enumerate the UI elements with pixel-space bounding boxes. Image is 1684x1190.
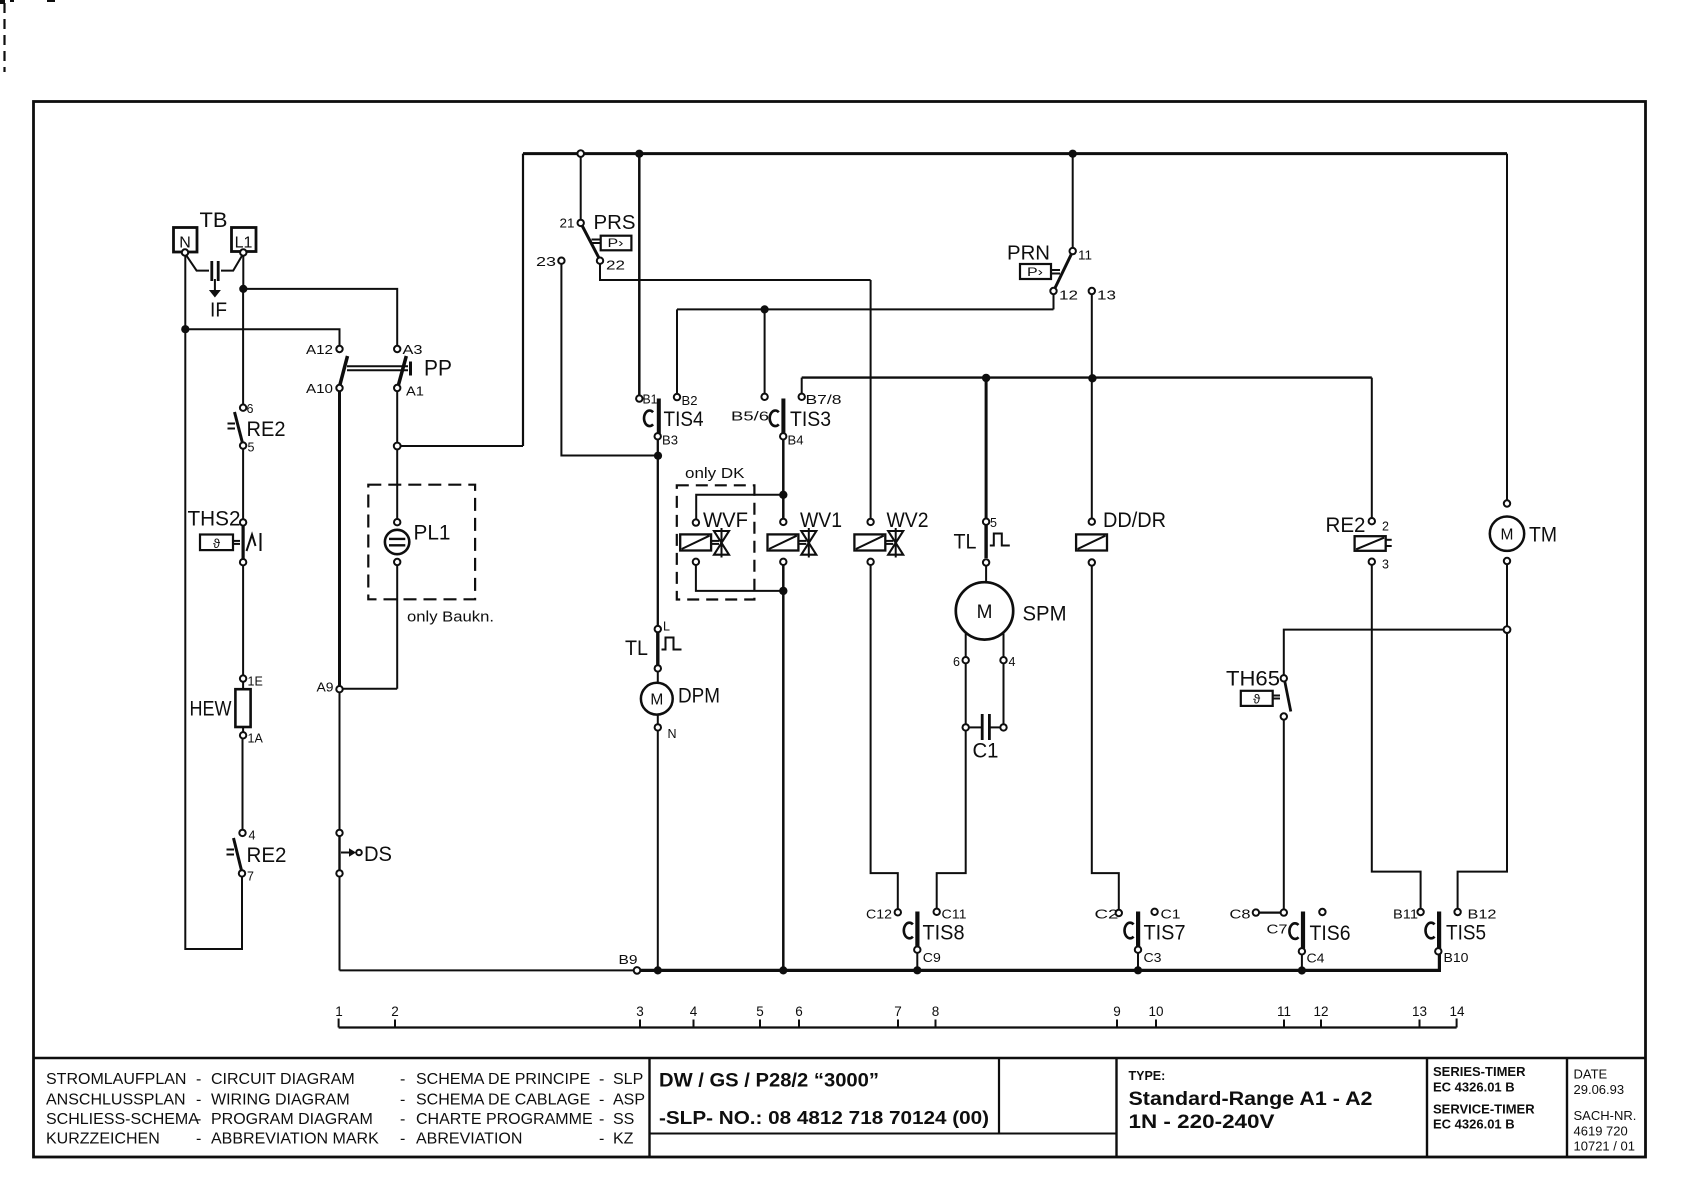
title block divider before SERIES-TIMER cell (1426, 1058, 1428, 1157)
svg-text:C1: C1 (1161, 908, 1181, 922)
svg-text:8: 8 (932, 1004, 940, 1019)
svg-text:1E: 1E (248, 675, 263, 689)
timer contact TIS3 (770, 399, 831, 448)
svg-text:B9: B9 (619, 953, 638, 967)
node B9 connector on bus (619, 953, 641, 974)
svg-text:23: 23 (536, 254, 556, 269)
svg-text:-SLP- NO.: 08 4812 718 70124: -SLP- NO.: 08 4812 718 70124 (00) (659, 1108, 989, 1128)
svg-text:9: 9 (1113, 1004, 1121, 1019)
svg-text:1: 1 (335, 1004, 343, 1019)
svg-text:-: - (599, 1131, 604, 1148)
solenoid valve WV1 (768, 509, 843, 565)
svg-text:only Baukn.: only Baukn. (407, 609, 494, 626)
wire TH65 row (1284, 630, 1504, 676)
svg-text:THS2: THS2 (188, 508, 241, 531)
svg-text:B2: B2 (682, 394, 698, 408)
node bus junction WV1 (779, 966, 787, 974)
svg-text:12: 12 (1313, 1004, 1328, 1019)
svg-text:-: - (400, 1131, 405, 1148)
svg-text:TL: TL (954, 531, 977, 554)
svg-text:6: 6 (795, 1004, 803, 1019)
svg-text:C4: C4 (1307, 952, 1325, 966)
wire HEW to RE2 contact 4 (242, 739, 244, 830)
svg-text:A1: A1 (406, 385, 424, 399)
svg-text:PP: PP (424, 356, 452, 381)
svg-text:SPM: SPM (1023, 603, 1067, 626)
svg-text:-: - (599, 1071, 604, 1088)
node bus junction B1 column (635, 150, 643, 158)
svg-text:A9: A9 (317, 681, 334, 695)
svg-text:CIRCUIT DIAGRAM: CIRCUIT DIAGRAM (211, 1071, 355, 1088)
PL1 optional dashed enclosure (368, 485, 475, 600)
svg-text:B11: B11 (1393, 908, 1418, 922)
wire riser to top bus (522, 154, 524, 446)
svg-text:SERVICE-TIMER: SERVICE-TIMER (1433, 1102, 1535, 1117)
wire C8 to C7 (1259, 911, 1281, 913)
wire C3 to bottom bus (1137, 953, 1139, 970)
svg-text:PRN: PRN (1007, 243, 1050, 265)
svg-text:TM: TM (1529, 524, 1557, 547)
svg-text:5: 5 (248, 441, 255, 455)
title block divider after abbreviation cell (648, 1058, 650, 1157)
svg-text:5: 5 (990, 516, 997, 530)
svg-text:21: 21 (560, 216, 575, 231)
svg-text:DW / GS / P28/2 “3000”: DW / GS / P28/2 “3000” (659, 1071, 879, 1092)
svg-text:3: 3 (636, 1004, 644, 1019)
svg-text:12: 12 (1059, 288, 1078, 303)
svg-text:CHARTE PROGRAMME: CHARTE PROGRAMME (416, 1111, 593, 1128)
node WVF bottom junction (779, 587, 787, 595)
node junction DD/DR column (1088, 374, 1096, 382)
svg-text:6: 6 (953, 655, 960, 669)
node bus junction PRN column (1069, 150, 1077, 158)
svg-text:SACH-NR.: SACH-NR. (1574, 1108, 1637, 1123)
svg-text:KZ: KZ (613, 1131, 634, 1148)
node B2 (674, 394, 698, 408)
svg-text:RE2: RE2 (247, 418, 286, 441)
svg-text:C3: C3 (1144, 951, 1162, 965)
svg-text:RE2: RE2 (247, 844, 287, 867)
timer contact TIS4 (644, 399, 704, 448)
node B3 junction (654, 452, 662, 460)
svg-text:2: 2 (391, 1004, 399, 1019)
wire A9 down to DS (339, 692, 341, 829)
svg-text:B1: B1 (643, 393, 658, 407)
wire DD/DR down to TIS7 C2 (1092, 566, 1119, 910)
svg-text:ABBREVIATION MARK: ABBREVIATION MARK (211, 1131, 379, 1148)
page edge dash-dot line (3, 3, 5, 72)
wire L1 junction to A3 column (243, 289, 397, 346)
wire PRS 22 down and across to WV2 column (600, 264, 871, 280)
wire N column down left side (185, 329, 242, 949)
wire N junction to A12 column (185, 329, 339, 346)
svg-text:DS: DS (364, 843, 392, 866)
node PRS tap connector on bus (577, 150, 584, 157)
svg-text:-: - (599, 1092, 604, 1109)
timer contact TIS8 (866, 908, 967, 966)
svg-text:-: - (196, 1131, 201, 1148)
svg-text:DPM: DPM (678, 685, 720, 708)
wire relay row down to RE2 coil (1371, 378, 1373, 518)
wire DPM to bottom bus (657, 731, 659, 971)
svg-text:P›: P› (608, 238, 624, 250)
relay coil DD/DR (1076, 509, 1166, 566)
svg-text:DATE: DATE (1574, 1067, 1608, 1082)
node A9 (317, 681, 343, 695)
svg-text:SLP: SLP (613, 1071, 643, 1088)
svg-text:ASP: ASP (613, 1092, 645, 1109)
svg-text:WV2: WV2 (887, 509, 929, 532)
svg-text:TIS4: TIS4 (664, 407, 704, 431)
wire SPM 6 down (965, 663, 967, 724)
svg-text:-: - (196, 1092, 201, 1109)
wire C1 down to TIS8 C11 (937, 731, 966, 909)
svg-text:M: M (1501, 527, 1514, 544)
node N junction (181, 325, 189, 333)
svg-text:C8: C8 (1230, 908, 1251, 922)
svg-text:3: 3 (1382, 558, 1389, 572)
solenoid valve WVF (680, 509, 748, 565)
terminal block TB terminal L1 (232, 228, 257, 256)
motor TM (1490, 500, 1557, 564)
pilot lamp PL1 (385, 519, 451, 565)
svg-text:KURZZEICHEN: KURZZEICHEN (46, 1131, 160, 1148)
title block divider after empty cell (1115, 1058, 1117, 1157)
relay contact RE2 (4-7) (227, 829, 287, 884)
svg-text:TB: TB (200, 209, 228, 232)
program switch PP (306, 343, 452, 399)
capacitor C1 (963, 714, 1007, 763)
svg-text:ϑ: ϑ (213, 536, 221, 551)
relay coil RE2 (1326, 514, 1392, 572)
node junction SPM column (982, 374, 990, 382)
svg-text:PL1: PL1 (414, 522, 451, 545)
svg-text:-: - (196, 1111, 201, 1128)
timer cell text (1433, 1064, 1535, 1132)
wire relay row down to TL (985, 378, 988, 519)
svg-text:M: M (650, 692, 663, 709)
wire PRN 13 down to relay row (1091, 294, 1093, 375)
svg-text:B12: B12 (1468, 908, 1497, 922)
svg-text:-: - (400, 1111, 405, 1128)
timer pulse contact TL right (954, 516, 1010, 566)
node bus junction DPM (654, 966, 662, 974)
svg-text:EC 4326.01 B: EC 4326.01 B (1433, 1080, 1515, 1095)
svg-text:C9: C9 (923, 951, 941, 965)
timer contact TIS5 (1393, 908, 1497, 966)
wire WV2 down to TIS8 C12 (871, 565, 898, 909)
svg-text:HEW: HEW (190, 698, 232, 721)
terminal block TB terminal N (174, 228, 198, 256)
wire B3 down to TL (657, 440, 659, 626)
heater HEW (190, 675, 264, 746)
node WVF top junction (779, 491, 787, 499)
svg-text:ϑ: ϑ (1253, 692, 1261, 707)
svg-text:EC 4326.01 B: EC 4326.01 B (1433, 1117, 1515, 1132)
svg-text:7: 7 (894, 1004, 902, 1019)
svg-text:4: 4 (1009, 655, 1016, 669)
svg-text:ABREVIATION: ABREVIATION (416, 1131, 522, 1148)
svg-text:SS: SS (613, 1111, 634, 1128)
wire B2 B5/6 PRN-12 row (677, 308, 1054, 310)
node TM connector (1504, 626, 1511, 633)
pressure switch DS (336, 830, 392, 877)
svg-text:-: - (400, 1092, 405, 1109)
thermostat TH65 (1226, 668, 1291, 720)
wire WV1 down to bottom bus (782, 565, 785, 970)
wire A9 to PL1 column (343, 688, 398, 690)
wire PRS 23 down and across to B3 node (561, 264, 655, 456)
solenoid valve WV2 (854, 509, 928, 565)
svg-text:7: 7 (247, 870, 254, 884)
title block top border (34, 1057, 1646, 1060)
svg-text:C7: C7 (1267, 923, 1288, 937)
svg-text:C12: C12 (866, 908, 892, 922)
relay row B7/8 to RE2 (802, 376, 1372, 378)
wire B4 down to WV1 (782, 440, 785, 519)
svg-text:RE2: RE2 (1326, 514, 1366, 537)
abbreviation table text (46, 1071, 645, 1148)
svg-text:10: 10 (1148, 1004, 1163, 1019)
wire row up to PRN 12 (1053, 294, 1055, 309)
svg-text:6: 6 (247, 402, 254, 416)
svg-text:TIS8: TIS8 (923, 921, 965, 945)
pressure switch PRS (536, 212, 636, 273)
wire RE2-7 to bottom return (241, 877, 243, 950)
wire WV2 feed down (870, 280, 872, 519)
wire bottom bus main segment (640, 969, 1441, 972)
relay contact RE2 (6-5) (228, 402, 286, 455)
svg-text:WIRING DIAGRAM: WIRING DIAGRAM (211, 1092, 350, 1109)
wire A10 down to A9 (338, 391, 341, 686)
date cell text (1574, 1067, 1637, 1154)
wire bus down to TM (1506, 154, 1508, 501)
svg-text:A3: A3 (403, 343, 423, 357)
node junction B5/6 tap (761, 305, 769, 313)
svg-text:TYPE:: TYPE: (1129, 1069, 1166, 1083)
svg-text:DD/DR: DD/DR (1103, 509, 1166, 532)
wire WVF branch bottom (696, 565, 783, 591)
svg-text:Standard-Range A1 - A2: Standard-Range A1 - A2 (1129, 1089, 1373, 1110)
svg-text:B7/8: B7/8 (806, 393, 842, 407)
wire connector down to PL1 (396, 449, 398, 519)
timer contact TIS7 (1095, 908, 1186, 966)
node bus junction TIS6 (1298, 966, 1306, 974)
wire relay row down to DD/DR (1091, 378, 1093, 518)
node bus junction TIS7 (1134, 966, 1142, 974)
title block divider before DATE cell (1566, 1058, 1568, 1157)
pressure switch PRN (1007, 243, 1116, 303)
svg-text:1A: 1A (248, 732, 264, 746)
node B1 (636, 393, 657, 407)
svg-text:5: 5 (756, 1004, 764, 1019)
svg-text:PROGRAM DIAGRAM: PROGRAM DIAGRAM (211, 1111, 373, 1128)
svg-text:TH65: TH65 (1226, 668, 1280, 691)
svg-text:L: L (663, 620, 670, 634)
svg-text:14: 14 (1449, 1004, 1465, 1019)
svg-text:M: M (977, 602, 993, 623)
svg-text:29.06.93: 29.06.93 (1574, 1082, 1625, 1097)
wire L1 to junction (242, 256, 244, 289)
wire bus down to PRN 11 (1072, 154, 1074, 248)
wire RE2 down to TIS5 B11 (1372, 565, 1421, 909)
svg-text:B3: B3 (662, 434, 678, 448)
wire bus down to B1 (638, 154, 641, 396)
wire B5/6 drop (764, 309, 766, 393)
svg-text:SCHLIESS-SCHEMA: SCHLIESS-SCHEMA (46, 1111, 199, 1128)
wire N to junction (184, 256, 186, 330)
svg-text:-: - (196, 1071, 201, 1088)
svg-text:B5/6: B5/6 (731, 410, 769, 424)
wire SPM 4 down (1003, 663, 1005, 724)
wire L1 junction down to RE2 contact 6 (242, 289, 244, 405)
svg-text:STROMLAUFPLAN: STROMLAUFPLAN (46, 1071, 186, 1088)
svg-text:TIS3: TIS3 (790, 407, 831, 431)
svg-text:B10: B10 (1444, 951, 1469, 965)
wire RE2-5 to THS2 (242, 449, 244, 519)
svg-text:2: 2 (1382, 520, 1389, 534)
svg-text:TIS7: TIS7 (1144, 921, 1186, 945)
svg-text:P›: P› (1027, 267, 1043, 279)
svg-text:13: 13 (1097, 288, 1116, 303)
svg-text:PRS: PRS (594, 212, 636, 234)
page corner registration mark (0, 0, 55, 4)
wire A1 down to connector (396, 391, 398, 442)
wire B2 up to cross line (676, 309, 678, 394)
node A1 connector (394, 443, 401, 450)
wire connector to riser (401, 445, 523, 447)
motor DPM (641, 672, 720, 741)
svg-text:WVF: WVF (703, 509, 748, 532)
node C8 (1230, 908, 1260, 922)
svg-text:11: 11 (1277, 1004, 1291, 1019)
svg-text:4: 4 (249, 829, 256, 843)
wire bottom bus left segment (340, 969, 634, 971)
svg-text:-: - (400, 1071, 405, 1088)
svg-text:4619 720: 4619 720 (1574, 1124, 1628, 1139)
svg-text:11: 11 (1078, 248, 1092, 263)
program step scale (335, 1004, 1465, 1028)
svg-text:only DK: only DK (685, 465, 745, 482)
wire B10 to bottom bus (1438, 955, 1441, 971)
wire C9 to bottom bus (916, 953, 918, 970)
wire C4 to bottom bus (1301, 955, 1303, 971)
title block horizontal divider under SLP-NO (650, 1133, 1117, 1135)
wire B7/8 up to relay row (801, 378, 803, 394)
svg-text:A10: A10 (306, 382, 333, 396)
node bus junction TIS8 (913, 966, 921, 974)
node L1 junction (239, 285, 247, 293)
svg-text:4: 4 (690, 1004, 698, 1019)
wire top supply bus (523, 152, 1507, 155)
svg-text:C1: C1 (973, 740, 999, 763)
wire THS2 to HEW (242, 565, 244, 675)
svg-text:22: 22 (606, 258, 625, 273)
wire DS to bottom bus (339, 877, 341, 971)
svg-text:WV1: WV1 (800, 509, 842, 532)
svg-text:-: - (599, 1111, 604, 1128)
wire bus tap down to PRS 21 (580, 157, 582, 220)
svg-text:SCHEMA DE CABLAGE: SCHEMA DE CABLAGE (416, 1092, 590, 1109)
svg-text:13: 13 (1412, 1004, 1427, 1019)
only DK dashed enclosure (677, 485, 755, 599)
svg-text:SERIES-TIMER: SERIES-TIMER (1433, 1064, 1526, 1079)
svg-text:10721 / 01: 10721 / 01 (1574, 1139, 1635, 1154)
node B7/8 (799, 393, 842, 407)
svg-text:TIS6: TIS6 (1310, 921, 1351, 945)
svg-text:TIS5: TIS5 (1446, 921, 1486, 945)
svg-text:N: N (668, 727, 677, 741)
svg-text:ANSCHLUSSPLAN: ANSCHLUSSPLAN (46, 1092, 186, 1109)
svg-text:A12: A12 (306, 343, 333, 357)
wire TM connector down to TIS5 B12 (1458, 633, 1507, 909)
node B5/6 (731, 394, 769, 424)
title block divider after SLP-NO cell (998, 1058, 1000, 1134)
svg-text:IF: IF (210, 300, 227, 322)
wire TM down to connector (1506, 564, 1508, 626)
timer contact TIS6 (1267, 909, 1351, 966)
motor SPM (953, 566, 1067, 669)
svg-text:SCHEMA DE PRINCIPE: SCHEMA DE PRINCIPE (416, 1071, 590, 1088)
timer pulse contact TL left (625, 620, 682, 672)
wire TH65 down to TIS6 C7 (1283, 720, 1285, 910)
wire PL1 down to A9 link (396, 565, 398, 689)
thermostat THS2 (188, 508, 261, 566)
wire WVF branch top (696, 495, 783, 520)
svg-text:B4: B4 (788, 434, 804, 448)
interference filter IF capacitor (187, 256, 243, 322)
svg-text:C11: C11 (942, 908, 967, 922)
svg-text:TL: TL (625, 637, 648, 660)
svg-text:1N - 220-240V: 1N - 220-240V (1129, 1112, 1275, 1133)
